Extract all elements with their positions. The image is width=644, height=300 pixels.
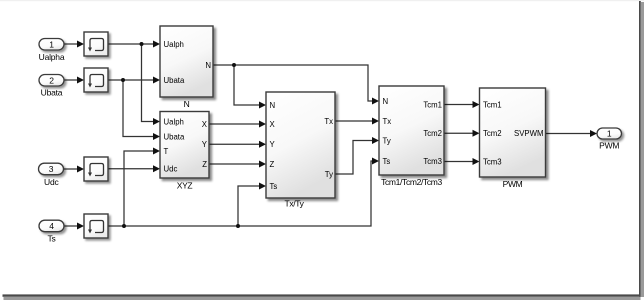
svg-text:N: N — [184, 99, 190, 109]
svg-text:2: 2 — [49, 75, 54, 85]
svg-text:Udc: Udc — [44, 177, 59, 187]
svg-text:N: N — [205, 61, 211, 70]
svg-text:Tcm1: Tcm1 — [483, 100, 502, 109]
svg-text:1: 1 — [607, 129, 612, 139]
svg-text:1: 1 — [49, 39, 54, 49]
svg-text:Ualph: Ualph — [164, 117, 184, 126]
svg-text:PWM: PWM — [599, 141, 619, 151]
svg-text:Ty: Ty — [383, 136, 391, 145]
svg-text:N: N — [383, 97, 389, 106]
svg-text:Tx/Ty: Tx/Ty — [284, 199, 304, 209]
svg-text:X: X — [202, 120, 208, 129]
svg-text:Ualph: Ualph — [164, 40, 184, 49]
svg-text:Ubata: Ubata — [164, 132, 185, 141]
svg-text:PWM: PWM — [503, 179, 523, 189]
svg-text:X: X — [270, 120, 276, 129]
svg-text:Tx: Tx — [383, 117, 392, 126]
svg-text:Tcm1/Tcm2/Tcm3: Tcm1/Tcm2/Tcm3 — [381, 177, 442, 187]
svg-text:Ts: Ts — [270, 182, 278, 191]
svg-text:XYZ: XYZ — [177, 181, 193, 191]
svg-text:Z: Z — [202, 160, 207, 169]
svg-text:Ty: Ty — [325, 170, 333, 179]
svg-text:Ts: Ts — [47, 234, 55, 244]
svg-text:Tcm2: Tcm2 — [483, 129, 502, 138]
svg-text:Tx: Tx — [324, 117, 333, 126]
svg-text:Tcm2: Tcm2 — [423, 129, 442, 138]
svg-text:Ts: Ts — [383, 157, 391, 166]
svg-text:Z: Z — [270, 160, 275, 169]
svg-text:4: 4 — [49, 221, 54, 231]
svg-text:Y: Y — [270, 140, 276, 149]
svg-text:T: T — [164, 147, 169, 156]
svg-text:Ubata: Ubata — [41, 88, 63, 98]
svg-text:Tcm3: Tcm3 — [423, 157, 442, 166]
svg-text:Y: Y — [202, 140, 208, 149]
svg-text:N: N — [270, 101, 276, 110]
svg-text:Ualpha: Ualpha — [39, 52, 65, 62]
svg-text:3: 3 — [49, 164, 54, 174]
svg-text:SVPWM: SVPWM — [514, 129, 543, 138]
svg-text:Ubata: Ubata — [164, 76, 185, 85]
svg-text:Tcm1: Tcm1 — [423, 101, 442, 110]
svg-text:Tcm3: Tcm3 — [483, 157, 502, 166]
svg-text:Udc: Udc — [164, 165, 178, 174]
